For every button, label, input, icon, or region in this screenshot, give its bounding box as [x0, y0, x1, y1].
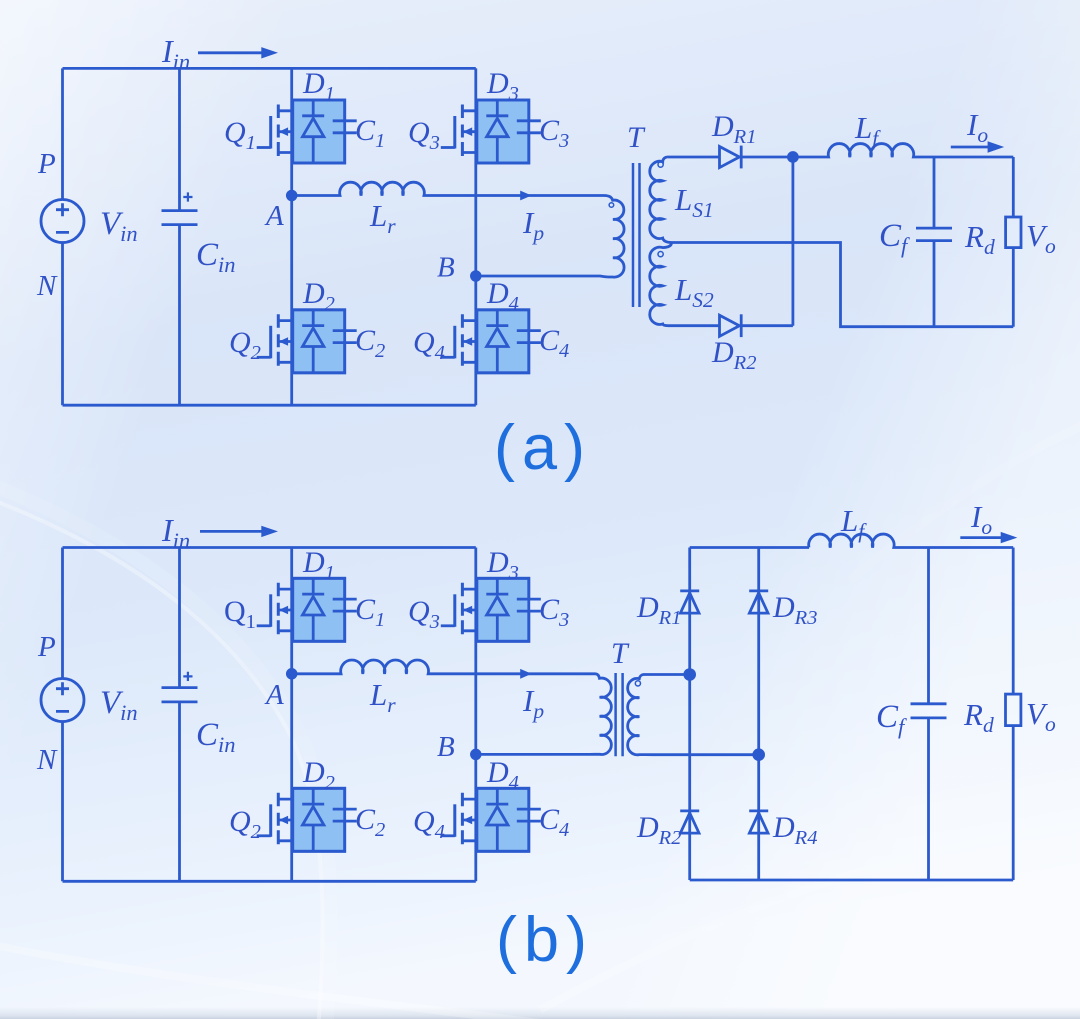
- switch cell Q1/D1/C1 (b): [257, 578, 357, 641]
- node A junction dot (a): [287, 191, 296, 200]
- transformer T (b) core: [616, 673, 623, 756]
- svg-text:A: A: [264, 200, 284, 232]
- svg-text:P: P: [37, 631, 56, 663]
- capacitor Cin (a): [162, 68, 198, 405]
- diode DR1 (b): [680, 591, 699, 613]
- wire: output bottom rail (b): [690, 879, 1014, 882]
- wire: center tap to output return (a): [672, 243, 1014, 327]
- wire: bottom rail (a): [63, 404, 476, 407]
- inductor Lr (a): [292, 182, 605, 195]
- wire: LS2 to diode DR2: [668, 324, 720, 327]
- wire: right bridge leg (a): [474, 68, 477, 405]
- transformer T (b) secondary winding: [628, 675, 759, 755]
- switch cell Q2/D2/C2 (b): [257, 788, 357, 851]
- current arrow Iin (b): [200, 530, 264, 533]
- wire: left branch upper (P side, b): [61, 548, 64, 679]
- current arrow Io (b): [960, 536, 1002, 539]
- polarity dot LS2: [658, 252, 663, 257]
- capacitor Cf (b): [911, 548, 947, 881]
- node B junction dot (a): [471, 272, 480, 281]
- switch cell Q2/D2/C2 (a): [257, 310, 357, 373]
- wire: left branch upper (P side): [61, 68, 64, 199]
- wire: LS1 to diode DR1: [668, 156, 720, 159]
- current arrow Iin (a): [198, 51, 263, 54]
- inductor Lf (a): [793, 144, 1013, 157]
- wire: primary return to node B (a): [476, 276, 608, 277]
- voltage source Vin (b): [41, 679, 84, 722]
- wire: top rail (a): [63, 67, 476, 70]
- transformer T (a) primary winding: [605, 196, 625, 278]
- polarity dot secondary (b): [635, 681, 640, 686]
- wire: left branch lower (N side, b): [61, 722, 64, 882]
- junction dot secondary top node (b): [685, 670, 695, 680]
- polarity dot primary (a): [609, 203, 614, 208]
- diode DR1 (a): [720, 147, 740, 168]
- wire: rectifier right vertical (b): [757, 548, 760, 881]
- svg-text:(b): (b): [496, 905, 594, 975]
- wire: top rail (b): [63, 546, 476, 549]
- capacitor Cin (b): [162, 548, 198, 882]
- switch cell Q3/D3/C3 (b): [441, 578, 541, 641]
- diode DR2 (a): [720, 315, 740, 336]
- wire: right bridge leg (b): [474, 548, 477, 882]
- wire: left bridge leg (a): [290, 68, 293, 405]
- wire: rectifier output top rail (b): [690, 546, 809, 549]
- resistor Rd (a): [1012, 157, 1015, 217]
- wire: primary return to node B (b): [476, 753, 594, 756]
- voltage source Vin (a): [41, 200, 84, 243]
- diode DR4 (b): [749, 811, 768, 833]
- resistor Rd (b): [1012, 548, 1015, 695]
- svg-text:(a): (a): [494, 413, 592, 483]
- svg-text:T: T: [627, 121, 646, 154]
- transformer T (a) secondary LS2 winding: [650, 243, 672, 326]
- svg-text:N: N: [36, 744, 58, 776]
- junction dot rectifier output node (a): [788, 153, 797, 162]
- polarity dot LS1: [658, 162, 663, 167]
- svg-text:B: B: [437, 252, 455, 284]
- diode DR3 (b): [749, 591, 768, 613]
- transformer T (a) core: [633, 163, 640, 307]
- current arrow Io (a): [951, 146, 990, 149]
- svg-text:P: P: [37, 148, 56, 180]
- svg-text:A: A: [264, 679, 284, 711]
- inductor Lf (b): [809, 534, 1014, 547]
- capacitor Cf (a): [916, 157, 952, 327]
- switch cell Q4/D4/C4 (a): [441, 310, 541, 373]
- transformer T (b) primary winding: [594, 674, 611, 755]
- svg-text:B: B: [437, 731, 455, 763]
- svg-text:T: T: [611, 637, 630, 670]
- switch cell Q3/D3/C3 (a): [441, 100, 541, 163]
- current arrow Ip (a): [520, 191, 531, 201]
- inductor Lr (b): [292, 660, 596, 674]
- wire: DR2 cathode riser to rectifier output node: [741, 157, 793, 326]
- junction dot secondary bottom node (b): [754, 750, 764, 760]
- transformer T (a) secondary LS1 winding: [650, 157, 672, 243]
- wire: left bridge leg (b): [290, 548, 293, 882]
- wire: rectifier left vertical (b): [688, 548, 691, 881]
- node A junction dot (b): [287, 669, 296, 678]
- wire: left branch lower (N side): [61, 243, 64, 406]
- node B junction dot (b): [471, 750, 480, 759]
- diode DR2 (b): [680, 811, 699, 833]
- wire: DR1 to Lf node: [741, 156, 793, 159]
- switch cell Q4/D4/C4 (b): [441, 788, 541, 851]
- switch cell Q1/D1/C1 (a): [257, 100, 357, 163]
- current arrow Ip (b): [520, 669, 531, 679]
- svg-text:N: N: [36, 270, 58, 302]
- wire: bottom rail (b): [63, 880, 476, 883]
